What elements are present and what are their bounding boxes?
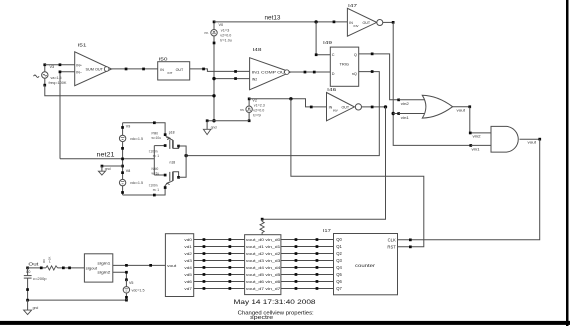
- svg-text:r=1K: r=1K: [47, 257, 51, 263]
- counter I17: [323, 228, 398, 295]
- svg-text:v2=0.0: v2=0.0: [220, 34, 231, 38]
- annotation timestamp: [234, 300, 317, 306]
- svg-text:vout_d2 vin_d2: vout_d2 vin_d2: [246, 252, 281, 256]
- svg-text:gnd: gnd: [105, 167, 111, 171]
- voltage source V5 (vdc=1.5): [123, 280, 144, 300]
- ground symbol: [203, 121, 216, 135]
- svg-text:I46: I46: [327, 87, 337, 92]
- wire V2 net to counter RST: [291, 99, 424, 248]
- svg-text:tr=1.0u: tr=1.0u: [220, 39, 232, 43]
- node Out label: [28, 261, 39, 267]
- wire V2 to I46 input: [249, 97, 326, 108]
- DAC block vout/vd0-vd7: [165, 234, 193, 297]
- svg-text:vout_d1 vin_d1: vout_d1 vin_d1: [246, 245, 281, 249]
- svg-text:IN+: IN+: [76, 63, 82, 67]
- svg-text:Q1: Q1: [336, 244, 342, 249]
- svg-text:vd3: vd3: [184, 259, 192, 263]
- svg-text:vd6: vd6: [184, 280, 192, 284]
- svg-text:vin2: vin2: [473, 134, 481, 138]
- ground rail wire: [206, 119, 249, 122]
- inverter I46 (INV): [327, 87, 362, 121]
- svg-text:v1=2.3: v1=2.3: [254, 103, 265, 107]
- svg-text:R0: R0: [42, 259, 46, 263]
- wire I50 output to I48 IN1: [190, 68, 250, 73]
- wire I48 output to I49 D: [291, 71, 331, 74]
- svg-text:Q2: Q2: [336, 251, 342, 256]
- svg-text:vd4: vd4: [184, 266, 192, 270]
- wire OR output vout: [453, 105, 472, 112]
- svg-text:vin1: vin1: [401, 116, 409, 120]
- wire vdd rail to PMOS source: [123, 121, 166, 134]
- svg-text:w=10u: w=10u: [152, 136, 162, 140]
- wire bottom rail: [26, 299, 128, 302]
- register block vout_d/vin_d: [245, 235, 281, 295]
- svg-text:v1=3: v1=3: [221, 29, 230, 33]
- svg-text:p18: p18: [169, 130, 175, 134]
- svg-text:vout: vout: [167, 264, 177, 268]
- svg-text:May 14 17:31:40 2008: May 14 17:31:40 2008: [234, 300, 317, 306]
- svg-text:vdc=1.5: vdc=1.5: [130, 137, 143, 141]
- svg-text:V5: V5: [129, 281, 133, 285]
- svg-text:freq=100K: freq=100K: [49, 81, 68, 85]
- resistor R1 vertical into register box: [260, 219, 264, 234]
- svg-text:OUT: OUT: [342, 106, 350, 110]
- svg-text:RST: RST: [387, 244, 396, 249]
- svg-text:vout: vout: [528, 140, 537, 144]
- wire I49 Q to OR vin2: [359, 53, 400, 102]
- wire gate feed vertical: [154, 144, 166, 176]
- svg-text:V0: V0: [219, 23, 224, 27]
- svg-text:nn.: nn.: [240, 108, 245, 112]
- svg-text:vout_d3 vin_d3: vout_d3 vin_d3: [246, 259, 281, 263]
- wire sigin1 to DAC vout: [113, 264, 166, 267]
- wire Out node: [26, 267, 46, 270]
- svg-text:l:100n: l:100n: [149, 149, 158, 153]
- wire AND output vout: [520, 138, 542, 145]
- svg-text:SUM OUT: SUM OUT: [86, 68, 104, 72]
- wire resistor to sigout: [58, 267, 85, 270]
- svg-text:vout_d6 vin_d6: vout_d6 vin_d6: [246, 280, 281, 284]
- svg-text:vout_d4 vin_d4: vout_d4 vin_d4: [246, 266, 281, 270]
- svg-text:I51: I51: [78, 43, 88, 48]
- capacitor C0 (c=200p): [24, 268, 47, 300]
- svg-text:I48: I48: [253, 47, 263, 52]
- svg-text:IN2: IN2: [252, 78, 257, 82]
- wire V3 minus return to ground node: [45, 85, 214, 96]
- svg-text:Q3: Q3: [336, 258, 342, 263]
- comparator block sigout/sigin: [84, 254, 112, 282]
- svg-text:Q7: Q7: [336, 286, 342, 291]
- svg-text:I17: I17: [323, 228, 332, 233]
- svg-text:Q: Q: [354, 53, 357, 57]
- svg-text:m: 1: m: 1: [153, 188, 159, 192]
- wire vss rail to NMOS source: [123, 188, 166, 197]
- svg-text:I50: I50: [159, 56, 169, 61]
- op-amp I51 (SUM): [75, 43, 112, 86]
- svg-text:vout: vout: [457, 109, 466, 113]
- transistor Q1 PMOS p18: [149, 130, 180, 158]
- svg-text:n18: n18: [170, 161, 176, 165]
- svg-text:vin1: vin1: [472, 147, 480, 151]
- svg-text:w=1u: w=1u: [152, 171, 160, 175]
- flip-flop I49 (TRIG): [323, 40, 359, 87]
- svg-text:vd0: vd0: [184, 238, 192, 242]
- wire I51 output to I50: [112, 68, 158, 71]
- svg-text:m: 1: m: 1: [153, 154, 159, 158]
- svg-text:TRIG: TRIG: [340, 62, 350, 66]
- svg-text:CLK: CLK: [388, 237, 396, 242]
- svg-text:OUT: OUT: [176, 68, 184, 72]
- voltage source V0 (vpulse v1=3): [205, 21, 232, 123]
- svg-text:IN1 COMP OUT: IN1 COMP OUT: [252, 71, 289, 75]
- svg-text:vdc=1.5: vdc=1.5: [130, 181, 143, 185]
- svg-text:tr=9: tr=9: [253, 113, 261, 117]
- comparator I48 (COMP): [250, 47, 291, 90]
- svg-text:V8: V8: [126, 169, 130, 173]
- svg-text:sigin1: sigin1: [97, 261, 110, 265]
- wire IN- feedback vertical to net21: [59, 71, 75, 159]
- voltage source V2 (vpulse v1=2.3): [240, 98, 265, 123]
- wire I46 output to DAC input ladder: [261, 105, 387, 220]
- svg-text:Out: Out: [28, 261, 39, 267]
- ground symbol: [24, 300, 39, 315]
- svg-text:vdc=1.5: vdc=1.5: [132, 288, 145, 292]
- wire I47 output down to OR vin1 stub and AND vin1: [383, 21, 472, 147]
- svg-text:c=200p: c=200p: [33, 277, 47, 281]
- svg-text:counter: counter: [355, 263, 376, 268]
- svg-text:vd7: vd7: [184, 287, 192, 291]
- svg-text:IN: IN: [160, 68, 164, 72]
- svg-text:V9: V9: [126, 124, 130, 128]
- integrator I50 (INT): [158, 56, 190, 80]
- AND gate U2: [491, 126, 518, 152]
- svg-text:nQ: nQ: [352, 72, 357, 76]
- svg-text:sigout: sigout: [86, 267, 98, 271]
- svg-text:gnd: gnd: [33, 306, 39, 310]
- wires register to counter Q0-Q7: [281, 238, 334, 290]
- wire OR output down to AND vin2: [469, 107, 491, 139]
- bottom scrollbar border: [0, 321, 570, 325]
- svg-text:NM0: NM0: [152, 167, 159, 171]
- voltage source V9 (vdc=1.5): [119, 123, 143, 195]
- svg-text:vout_d7 vin_d7: vout_d7 vin_d7: [246, 287, 281, 291]
- voltage source V8 (vdc=1.5): [119, 169, 143, 194]
- svg-text:spectre: spectre: [250, 315, 273, 321]
- svg-text:vin2: vin2: [401, 102, 409, 106]
- wire net13: [214, 20, 347, 23]
- svg-text:Q4: Q4: [336, 265, 342, 270]
- wire V3 plus to IN+: [45, 63, 75, 66]
- wire I48 IN2 from ground net: [214, 77, 250, 80]
- voltage source V3 (vsin va=1.5 freq=100K): [34, 63, 68, 86]
- annotation cellview note: [238, 311, 314, 321]
- resistor R0 (r=1K): [42, 257, 58, 270]
- svg-text:V3: V3: [50, 65, 55, 69]
- svg-text:Changed cellview properties:: Changed cellview properties:: [238, 311, 314, 317]
- svg-text:INT: INT: [168, 71, 173, 75]
- wire AND output to counter CLK: [398, 139, 540, 241]
- wires DAC outputs to register box: [194, 238, 245, 290]
- svg-text:D: D: [332, 72, 335, 76]
- wire OR input vin2 from Q: [399, 100, 425, 106]
- svg-text:C: C: [332, 53, 335, 57]
- svg-text:gnd: gnd: [211, 126, 217, 130]
- svg-text:vd2: vd2: [184, 252, 192, 256]
- wire drain node to output: [179, 146, 187, 177]
- wire sigin2 to V5: [113, 271, 128, 281]
- svg-text:OUT: OUT: [363, 21, 371, 25]
- wire OR input vin1 from I47: [399, 114, 425, 121]
- svg-text:vout_d5 vin_d5: vout_d5 vin_d5: [246, 273, 281, 277]
- svg-text:nn.: nn.: [205, 31, 210, 35]
- wire net13 tap to I49 C: [315, 22, 331, 56]
- node net13 label: [265, 15, 281, 22]
- svg-text:Q6: Q6: [336, 279, 342, 284]
- svg-text:l:100n: l:100n: [149, 184, 158, 188]
- wire net21: [60, 158, 154, 160]
- svg-text:I49: I49: [323, 40, 333, 45]
- svg-text:Q0: Q0: [336, 237, 342, 242]
- wire I49 nQ to transistor output node: [184, 70, 379, 157]
- wire AND input vin1: [471, 145, 491, 151]
- svg-text:sigin2: sigin2: [97, 271, 110, 275]
- svg-text:I47: I47: [348, 3, 358, 8]
- node net21 label: [97, 152, 115, 159]
- svg-text:vd5: vd5: [184, 273, 192, 277]
- svg-text:vd1: vd1: [184, 245, 192, 249]
- svg-text:vout_d0 vin_d0: vout_d0 vin_d0: [246, 238, 281, 242]
- inverter I47 (INV): [347, 3, 382, 36]
- wire ground tie: [101, 165, 123, 168]
- svg-text:C0: C0: [26, 270, 30, 274]
- svg-text:v2=0.0: v2=0.0: [253, 108, 264, 112]
- transistor Q2 NMOS n18: [149, 161, 180, 193]
- svg-text:INV: INV: [354, 24, 359, 28]
- svg-text:net21: net21: [97, 152, 115, 159]
- svg-text:Q5: Q5: [336, 272, 342, 277]
- svg-text:IN−: IN−: [76, 71, 82, 75]
- OR gate U1: [422, 95, 452, 118]
- svg-text:INV: INV: [333, 108, 338, 112]
- right scrollbar border: [566, 0, 569, 326]
- svg-text:net13: net13: [265, 15, 281, 22]
- ground symbol: [98, 166, 110, 175]
- svg-text:PM0: PM0: [152, 132, 159, 136]
